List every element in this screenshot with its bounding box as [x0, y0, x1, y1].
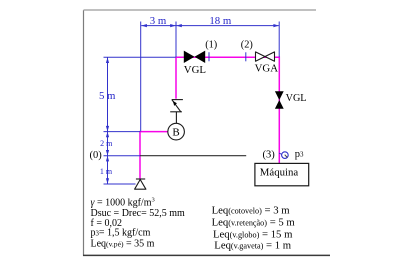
- svg-text:VGL: VGL: [286, 93, 307, 104]
- svg-text:Leq(v.pé) = 35 m: Leq(v.pé) = 35 m: [91, 238, 155, 249]
- svg-text:VGL: VGL: [184, 64, 206, 76]
- svg-text:18 m: 18 m: [209, 15, 231, 27]
- svg-text:Leq(v.retenção) = 5 m: Leq(v.retenção) = 5 m: [212, 217, 296, 229]
- svg-text:(0): (0): [90, 150, 103, 161]
- svg-text:Leq(v.gaveta) = 1 m: Leq(v.gaveta) = 1 m: [214, 240, 291, 252]
- svg-text:5 m: 5 m: [99, 90, 116, 102]
- svg-text:(1): (1): [205, 39, 217, 50]
- svg-text:B: B: [172, 127, 179, 139]
- svg-text:Leq(cotovelo) = 3 m: Leq(cotovelo) = 3 m: [212, 204, 291, 216]
- svg-text:Máquina: Máquina: [260, 166, 299, 178]
- svg-text:p3= 1,5 kgf/cm: p3= 1,5 kgf/cm: [91, 228, 151, 239]
- svg-text:2 m: 2 m: [100, 139, 113, 148]
- svg-text:3 m: 3 m: [150, 15, 167, 27]
- svg-text:γ = 1000 kgf/m3: γ = 1000 kgf/m3: [91, 197, 155, 209]
- svg-text:VGA: VGA: [255, 63, 279, 75]
- svg-text:p3: p3: [295, 149, 304, 160]
- svg-text:(2): (2): [241, 39, 253, 50]
- svg-text:1 m: 1 m: [100, 167, 113, 176]
- svg-text:(3): (3): [263, 149, 276, 160]
